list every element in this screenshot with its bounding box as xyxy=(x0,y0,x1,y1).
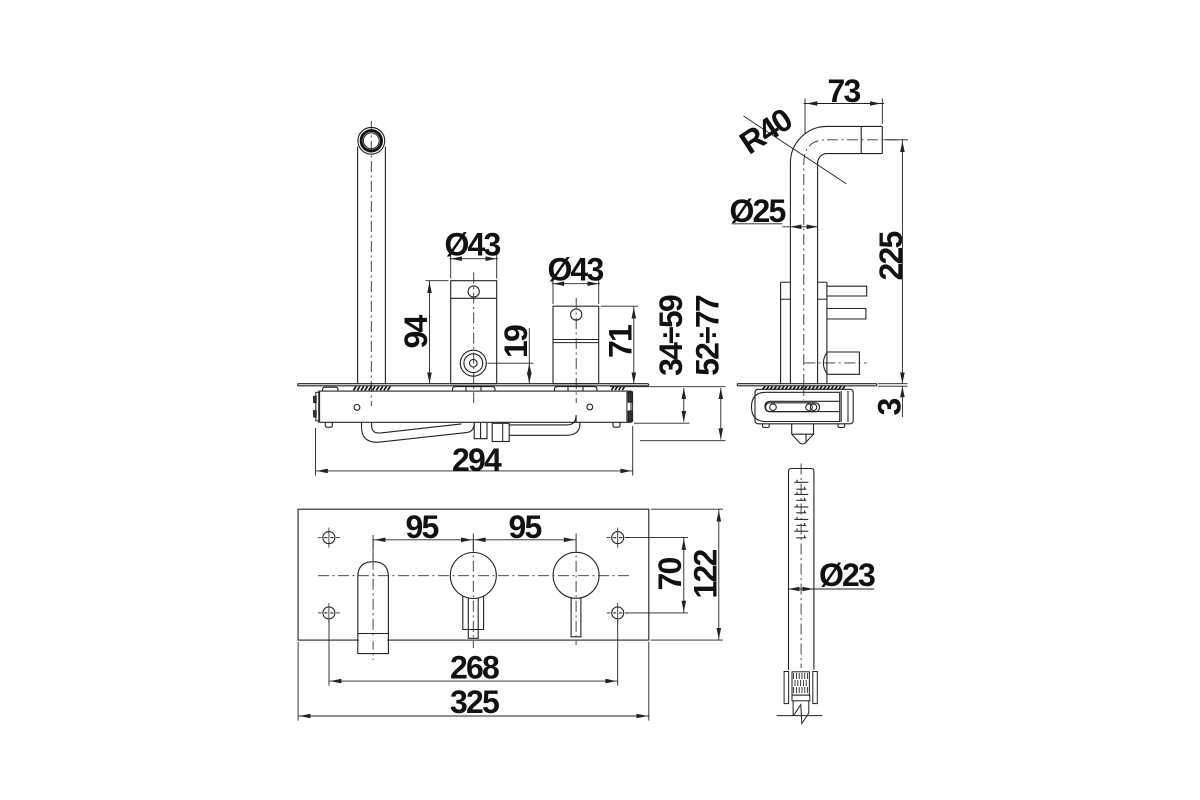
dim 95 first line xyxy=(373,539,473,541)
side view: handle 2 button bar xyxy=(827,309,866,320)
dim Ø43 handle 2 extension lines xyxy=(552,277,554,305)
svg-text:122: 122 xyxy=(688,550,724,599)
front view: thread hatch under spout xyxy=(354,386,391,390)
front view: handle 1 body xyxy=(451,281,497,384)
front view: body foot left xyxy=(325,422,332,427)
svg-text:R40: R40 xyxy=(733,101,798,161)
side view: body feet xyxy=(763,424,770,428)
front view: handle 2 centerline xyxy=(575,298,577,403)
dim 94 extension line xyxy=(426,280,449,282)
plan view: handle 2 centerline xyxy=(575,541,577,645)
side view: spout pipe vertical edges xyxy=(789,163,791,384)
front view: spout tube left edge xyxy=(357,147,359,384)
svg-text:225: 225 xyxy=(873,232,909,281)
dim 268 extension lines xyxy=(328,620,330,686)
svg-text:294: 294 xyxy=(452,442,502,478)
dim 19 line xyxy=(528,328,530,384)
front view: pipe to diverter xyxy=(509,415,580,435)
front view: handle 1 cap line xyxy=(451,297,497,299)
plan view: handle 2 circle xyxy=(553,552,599,598)
dim 70 line xyxy=(683,538,685,613)
front view: body foot right xyxy=(613,422,620,427)
front view: mounting bump under handle 2 xyxy=(555,387,598,392)
front view: body left clamp plate xyxy=(316,392,320,421)
front view: body right clamp tabs xyxy=(628,392,632,403)
front view: under-deck body xyxy=(319,391,631,422)
plan view: handle 1 circle xyxy=(450,553,496,599)
plan view: handle 1 lever inner xyxy=(468,598,478,638)
plan view: mounting plate xyxy=(298,509,649,640)
front view: deck plate xyxy=(298,384,649,386)
svg-text:325: 325 xyxy=(450,684,499,720)
front view: hose coupler nut xyxy=(492,423,509,441)
dim 73 extension lines xyxy=(804,99,806,135)
svg-text:Ø43: Ø43 xyxy=(547,252,603,288)
plan view: handle 1 centerline xyxy=(472,541,474,648)
hand shower: hose break line xyxy=(777,715,823,717)
side view: handle cylinder slab xyxy=(780,282,782,384)
dim Ø25 line xyxy=(783,226,818,228)
dim 3 line below xyxy=(901,386,903,417)
svg-text:71: 71 xyxy=(603,325,639,358)
plan view: spout bottom block xyxy=(358,634,389,654)
svg-text:52÷77: 52÷77 xyxy=(690,295,726,376)
dim Ø43 handle 2 line xyxy=(552,283,600,285)
front view: handle 1 centerline xyxy=(473,273,475,404)
front view: supply pipe loop under body xyxy=(362,422,475,442)
plan view: screw hole bottom-left xyxy=(323,607,335,619)
plan view: spout centerline xyxy=(372,539,374,660)
hand shower: knurled nut xyxy=(792,672,809,695)
dim 325 extension lines xyxy=(297,642,299,721)
front view: spout tube top ring (dark) xyxy=(361,131,381,151)
dim 122 extension lines xyxy=(651,508,723,510)
front view: handle 1 knob circle middle xyxy=(464,354,483,373)
svg-text:268: 268 xyxy=(450,650,499,686)
side view: spout outlet centerline horizontal xyxy=(827,139,908,141)
side view: spout bend outer arc xyxy=(790,126,827,163)
front view: spout tube top circle outer xyxy=(358,127,385,154)
dim 34/59 line xyxy=(683,388,685,422)
front view: handle 1 knob circle outer xyxy=(460,350,486,376)
front view: handle 1 knob circle inner xyxy=(470,359,478,367)
plan view: screw hole bottom-right xyxy=(612,607,624,619)
hand shower: connector band xyxy=(792,695,810,701)
front view: handle 2 button circle xyxy=(571,309,582,320)
side view: pipe loop side (outer) xyxy=(752,392,840,421)
svg-text:70: 70 xyxy=(652,558,688,591)
svg-text:95: 95 xyxy=(406,509,439,545)
dim 268 line xyxy=(329,680,618,682)
dim 71 extension line xyxy=(601,305,638,307)
dim 95 extension ticks xyxy=(372,535,374,560)
front view: clamp bump left under deck xyxy=(323,387,338,391)
dim 225 line xyxy=(901,140,903,384)
dim 34/59 lower extension line xyxy=(634,422,690,424)
dim 225 extension line xyxy=(884,139,908,141)
dim 325 line xyxy=(298,715,649,717)
plan view: handle 2 lever xyxy=(571,598,581,637)
plan view: main horizontal centerline xyxy=(318,575,630,577)
svg-text:34÷59: 34÷59 xyxy=(653,295,689,376)
dim 52/77 lower extension line xyxy=(640,440,726,442)
front view: thread hatch right of handle 2 xyxy=(612,387,625,390)
hand shower: wand body xyxy=(789,469,814,670)
svg-text:94: 94 xyxy=(398,315,434,349)
deck bottom extension line right xyxy=(610,386,726,388)
side view: spout centerline vertical+bend xyxy=(804,140,827,385)
front view: handle 1 button circle xyxy=(468,286,479,297)
dim Ø25 underline xyxy=(732,223,783,225)
dim Ø43 handle 1 extension lines xyxy=(450,252,452,279)
front view: handle 2 groove lines xyxy=(553,339,599,341)
dim 294 line xyxy=(316,470,633,472)
svg-text:19: 19 xyxy=(498,325,534,358)
front view: body screw hole left xyxy=(354,405,360,411)
side view: under-deck body xyxy=(755,389,853,424)
dim 3 extension lines xyxy=(878,383,908,385)
plan view: plate bottom line hidden behind spout xyxy=(359,639,387,641)
svg-text:Ø23: Ø23 xyxy=(819,557,875,593)
plan view: handle 1 lever outer xyxy=(463,596,484,630)
hand shower: hose break zigzag xyxy=(794,705,809,724)
svg-text:3: 3 xyxy=(872,399,908,416)
side view: body centerline xyxy=(803,385,805,400)
dim 52/77 line xyxy=(720,388,722,440)
front view: body right clamp plate xyxy=(627,392,633,421)
svg-text:73: 73 xyxy=(828,73,861,109)
hand shower: connector side plates xyxy=(784,672,789,704)
dim Ø23 line xyxy=(789,588,875,590)
front view: handle 2 body xyxy=(553,306,599,384)
dim 122 line xyxy=(718,509,720,640)
front view: mounting bump under handle 1 xyxy=(453,387,496,392)
side view: knob centerline xyxy=(804,362,867,364)
front view: spout tube right edge xyxy=(384,147,386,384)
side view: deck plate xyxy=(737,384,877,386)
front view: body screw hole right xyxy=(587,404,593,410)
dim 70 extension lines xyxy=(625,537,688,539)
front view: spout tube top circle inner xyxy=(363,133,379,149)
dim 294 extension lines xyxy=(315,428,317,476)
front view: spout tube centerline xyxy=(370,121,372,406)
R40 leader line xyxy=(744,116,847,184)
dim 19 extension line xyxy=(488,362,534,364)
svg-text:Ø43: Ø43 xyxy=(444,227,500,263)
front view: body left clamp tabs xyxy=(314,396,317,402)
plan view: screw hole top-left xyxy=(323,532,335,544)
side view: clamp slot stadium xyxy=(766,403,820,412)
side view: hose connector point xyxy=(792,424,814,444)
dim 73 line xyxy=(804,103,884,105)
hand shower: spray ticks xyxy=(794,480,808,538)
side view: body clamp lines xyxy=(840,391,842,422)
plan view: spout stadium xyxy=(358,562,389,634)
side view: thread hatch under deck xyxy=(763,386,845,389)
dim 95 second line xyxy=(473,539,576,541)
dim 94 line xyxy=(429,281,431,384)
dim 71 line xyxy=(633,306,635,383)
front view: hose coupler sleeve xyxy=(474,422,487,438)
side view: spout bend inner arc xyxy=(818,154,827,163)
hand shower: centerline xyxy=(800,464,802,669)
dim Ø43 handle 1 line xyxy=(449,258,498,260)
hand shower: hose start xyxy=(792,701,794,716)
side view: handle 1 button bar xyxy=(827,286,867,296)
side view: temperature knob side xyxy=(823,352,859,374)
svg-text:95: 95 xyxy=(509,509,542,545)
side view: clamp screws xyxy=(770,404,777,411)
plan view: screw hole top-right xyxy=(612,532,624,544)
side view: spout horizontal outlet xyxy=(827,126,882,153)
